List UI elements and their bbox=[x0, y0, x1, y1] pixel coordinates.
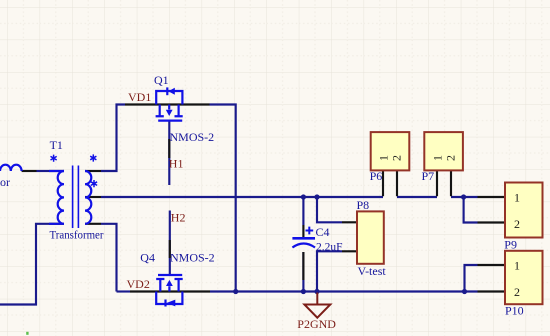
svg-text:Transformer: Transformer bbox=[50, 227, 104, 241]
svg-text:NMOS-2: NMOS-2 bbox=[170, 130, 215, 144]
svg-text:H1: H1 bbox=[169, 157, 184, 171]
svg-text:V-test: V-test bbox=[358, 264, 387, 278]
svg-text:H2: H2 bbox=[171, 210, 186, 224]
svg-text:2.2uF: 2.2uF bbox=[316, 240, 343, 254]
svg-text:1: 1 bbox=[514, 191, 520, 205]
svg-text:Q1: Q1 bbox=[154, 73, 169, 87]
svg-text:P6: P6 bbox=[370, 169, 383, 183]
svg-text:2: 2 bbox=[390, 155, 404, 161]
svg-text:2: 2 bbox=[514, 285, 520, 299]
svg-text:C4: C4 bbox=[316, 225, 330, 239]
svg-text:or: or bbox=[0, 175, 10, 189]
svg-text:P8: P8 bbox=[357, 198, 370, 212]
svg-text:NMOS-2: NMOS-2 bbox=[170, 251, 215, 265]
svg-text:T1: T1 bbox=[50, 138, 63, 152]
svg-text:2: 2 bbox=[444, 155, 458, 161]
svg-text:Q4: Q4 bbox=[140, 251, 155, 265]
svg-text:P7: P7 bbox=[422, 169, 435, 183]
svg-text:2: 2 bbox=[514, 217, 520, 231]
svg-text:P9: P9 bbox=[504, 238, 517, 252]
svg-text:P2GND: P2GND bbox=[297, 317, 336, 331]
svg-text:VD2: VD2 bbox=[127, 277, 150, 291]
svg-text:VD1: VD1 bbox=[128, 90, 151, 104]
svg-text:1: 1 bbox=[377, 155, 391, 161]
svg-text:1: 1 bbox=[431, 155, 445, 161]
svg-text:1: 1 bbox=[514, 259, 520, 273]
svg-text:P10: P10 bbox=[505, 304, 524, 318]
